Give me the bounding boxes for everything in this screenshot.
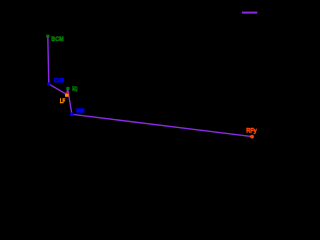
svg-text:MBB: MBB xyxy=(76,108,84,114)
marker blue square xyxy=(47,83,50,86)
data line series xyxy=(48,36,252,136)
marker blue circle xyxy=(70,112,74,116)
svg-text:BCM: BCM xyxy=(51,36,63,43)
marker green square mid xyxy=(66,87,69,90)
marker orange square xyxy=(65,94,69,97)
svg-text:EQ: EQ xyxy=(72,86,77,92)
svg-text:LF: LF xyxy=(60,98,65,105)
marker orangered circle right xyxy=(250,135,254,139)
marker green square top xyxy=(46,35,49,38)
marker red square xyxy=(65,92,68,95)
svg-text:RFy: RFy xyxy=(246,127,257,134)
svg-text:CHS: CHS xyxy=(54,77,64,84)
legend line sample xyxy=(242,12,257,14)
